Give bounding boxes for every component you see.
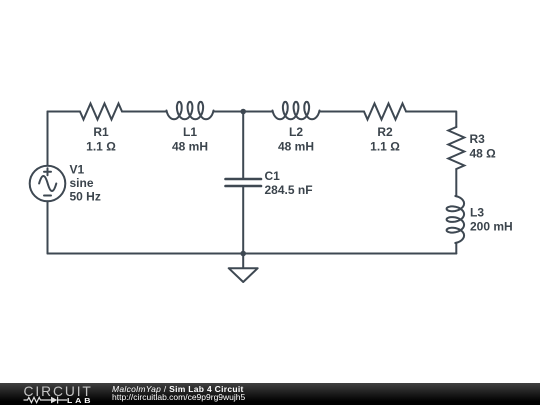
CircuitLab logo wordmark CIRCUIT: [0, 383, 110, 405]
wire L3 to bottom-right corner: [455, 243, 457, 254]
svg-text:R3: R3: [470, 132, 486, 146]
footer bar: [0, 383, 540, 405]
inductor L2: [273, 102, 320, 154]
svg-text:1.1 Ω: 1.1 Ω: [370, 140, 400, 154]
ground: [229, 254, 258, 283]
resistor R3: [448, 127, 496, 169]
wire L1 to node A to L2: [214, 111, 273, 113]
svg-text:R1: R1: [93, 125, 109, 139]
CircuitLab logo wordmark LAB: [67, 396, 93, 405]
wire R1 to L1: [122, 111, 167, 113]
svg-text:48 mH: 48 mH: [278, 140, 314, 154]
wire L2 to R2: [320, 111, 365, 113]
svg-text:200 mH: 200 mH: [470, 220, 513, 234]
svg-text:50 Hz: 50 Hz: [70, 190, 101, 204]
svg-text:sine: sine: [70, 176, 94, 190]
wire C1 to bottom rail: [242, 187, 244, 254]
CircuitLab logo schematic squiggle: [0, 383, 70, 405]
inductor L3: [447, 196, 513, 243]
svg-text:48 mH: 48 mH: [172, 140, 208, 154]
svg-text:R2: R2: [377, 125, 393, 139]
wire V1 to bottom rail: [47, 201, 49, 253]
svg-text:L1: L1: [183, 125, 197, 139]
node B junction dot: [240, 251, 246, 257]
wire node A down to C1: [242, 112, 244, 179]
svg-text:284.5 nF: 284.5 nF: [265, 183, 313, 197]
wire left rail top: [47, 112, 49, 166]
wire R3 to L3: [455, 169, 457, 196]
svg-text:48 Ω: 48 Ω: [470, 146, 497, 160]
svg-text:1.1 Ω: 1.1 Ω: [86, 140, 116, 154]
wire bottom rail: [48, 253, 457, 255]
inductor L1: [167, 102, 214, 154]
wire top rail left segment: [48, 111, 81, 113]
svg-text:L3: L3: [470, 205, 484, 219]
voltage source V1: [30, 163, 101, 204]
footer title text: [112, 386, 245, 401]
resistor R2: [364, 104, 406, 154]
svg-text:C1: C1: [265, 169, 281, 183]
node A junction dot: [240, 109, 246, 115]
wire R2 to top-right corner down to R3: [406, 112, 456, 128]
capacitor C1: [226, 169, 313, 197]
svg-text:V1: V1: [70, 163, 85, 177]
resistor R1: [80, 104, 122, 154]
svg-text:L2: L2: [289, 125, 303, 139]
